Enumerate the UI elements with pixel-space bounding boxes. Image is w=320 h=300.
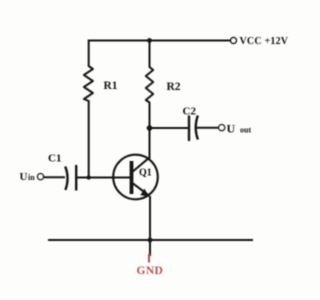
svg-text:C2: C2 — [183, 106, 197, 118]
wire emitter vertical to ground rail — [149, 196, 151, 256]
wire R1 bottom lead — [88, 101, 90, 178]
terminal VCC circle — [231, 38, 237, 44]
capacitor C1 straight plate — [75, 165, 77, 191]
resistor R2 — [146, 67, 153, 103]
node junction dot top rail / R2 — [147, 38, 152, 43]
svg-text:C1: C1 — [48, 153, 61, 165]
svg-text:GND: GND — [137, 265, 164, 277]
svg-text:out: out — [240, 126, 251, 135]
wire C1 to base — [76, 177, 130, 179]
transistor Q1 emitter arrowhead — [140, 189, 149, 197]
svg-text:VCC +12V: VCC +12V — [240, 36, 289, 47]
svg-text:R1: R1 — [104, 80, 118, 92]
wire R1 branch top lead — [88, 40, 90, 67]
wire C2 branch — [150, 127, 189, 129]
terminal U out circle — [219, 125, 225, 131]
svg-text:U: U — [20, 171, 28, 183]
svg-text:Q1: Q1 — [139, 168, 152, 179]
transistor Q1 collector stroke — [133, 157, 150, 171]
svg-text:U: U — [227, 122, 236, 136]
label GND (red) — [148, 254, 150, 263]
node junction dot emitter / ground rail — [148, 238, 153, 243]
node junction dot C2 branch — [147, 125, 153, 131]
transistor Q1 circle — [113, 155, 158, 200]
node junction dot R1 / base wire — [87, 175, 91, 179]
terminal Uin circle — [38, 174, 44, 180]
wire top rail VCC — [88, 40, 230, 42]
capacitor C2 straight plate — [188, 116, 190, 142]
svg-text:in: in — [28, 173, 35, 182]
transistor Q1 base bar — [130, 161, 134, 194]
wire R2 bottom lead / collector vertical — [149, 103, 151, 159]
wire Uin to C1 — [44, 176, 65, 178]
capacitor C1 curved plate — [65, 167, 67, 191]
transistor Q1 emitter stroke — [133, 183, 150, 196]
wire bottom ground rail — [48, 239, 253, 241]
svg-text:R2: R2 — [167, 81, 181, 93]
wire C2 to output terminal — [197, 127, 219, 129]
wire R2 branch top lead — [149, 40, 151, 68]
capacitor C2 curved plate — [196, 116, 198, 140]
resistor R1 — [84, 66, 93, 101]
